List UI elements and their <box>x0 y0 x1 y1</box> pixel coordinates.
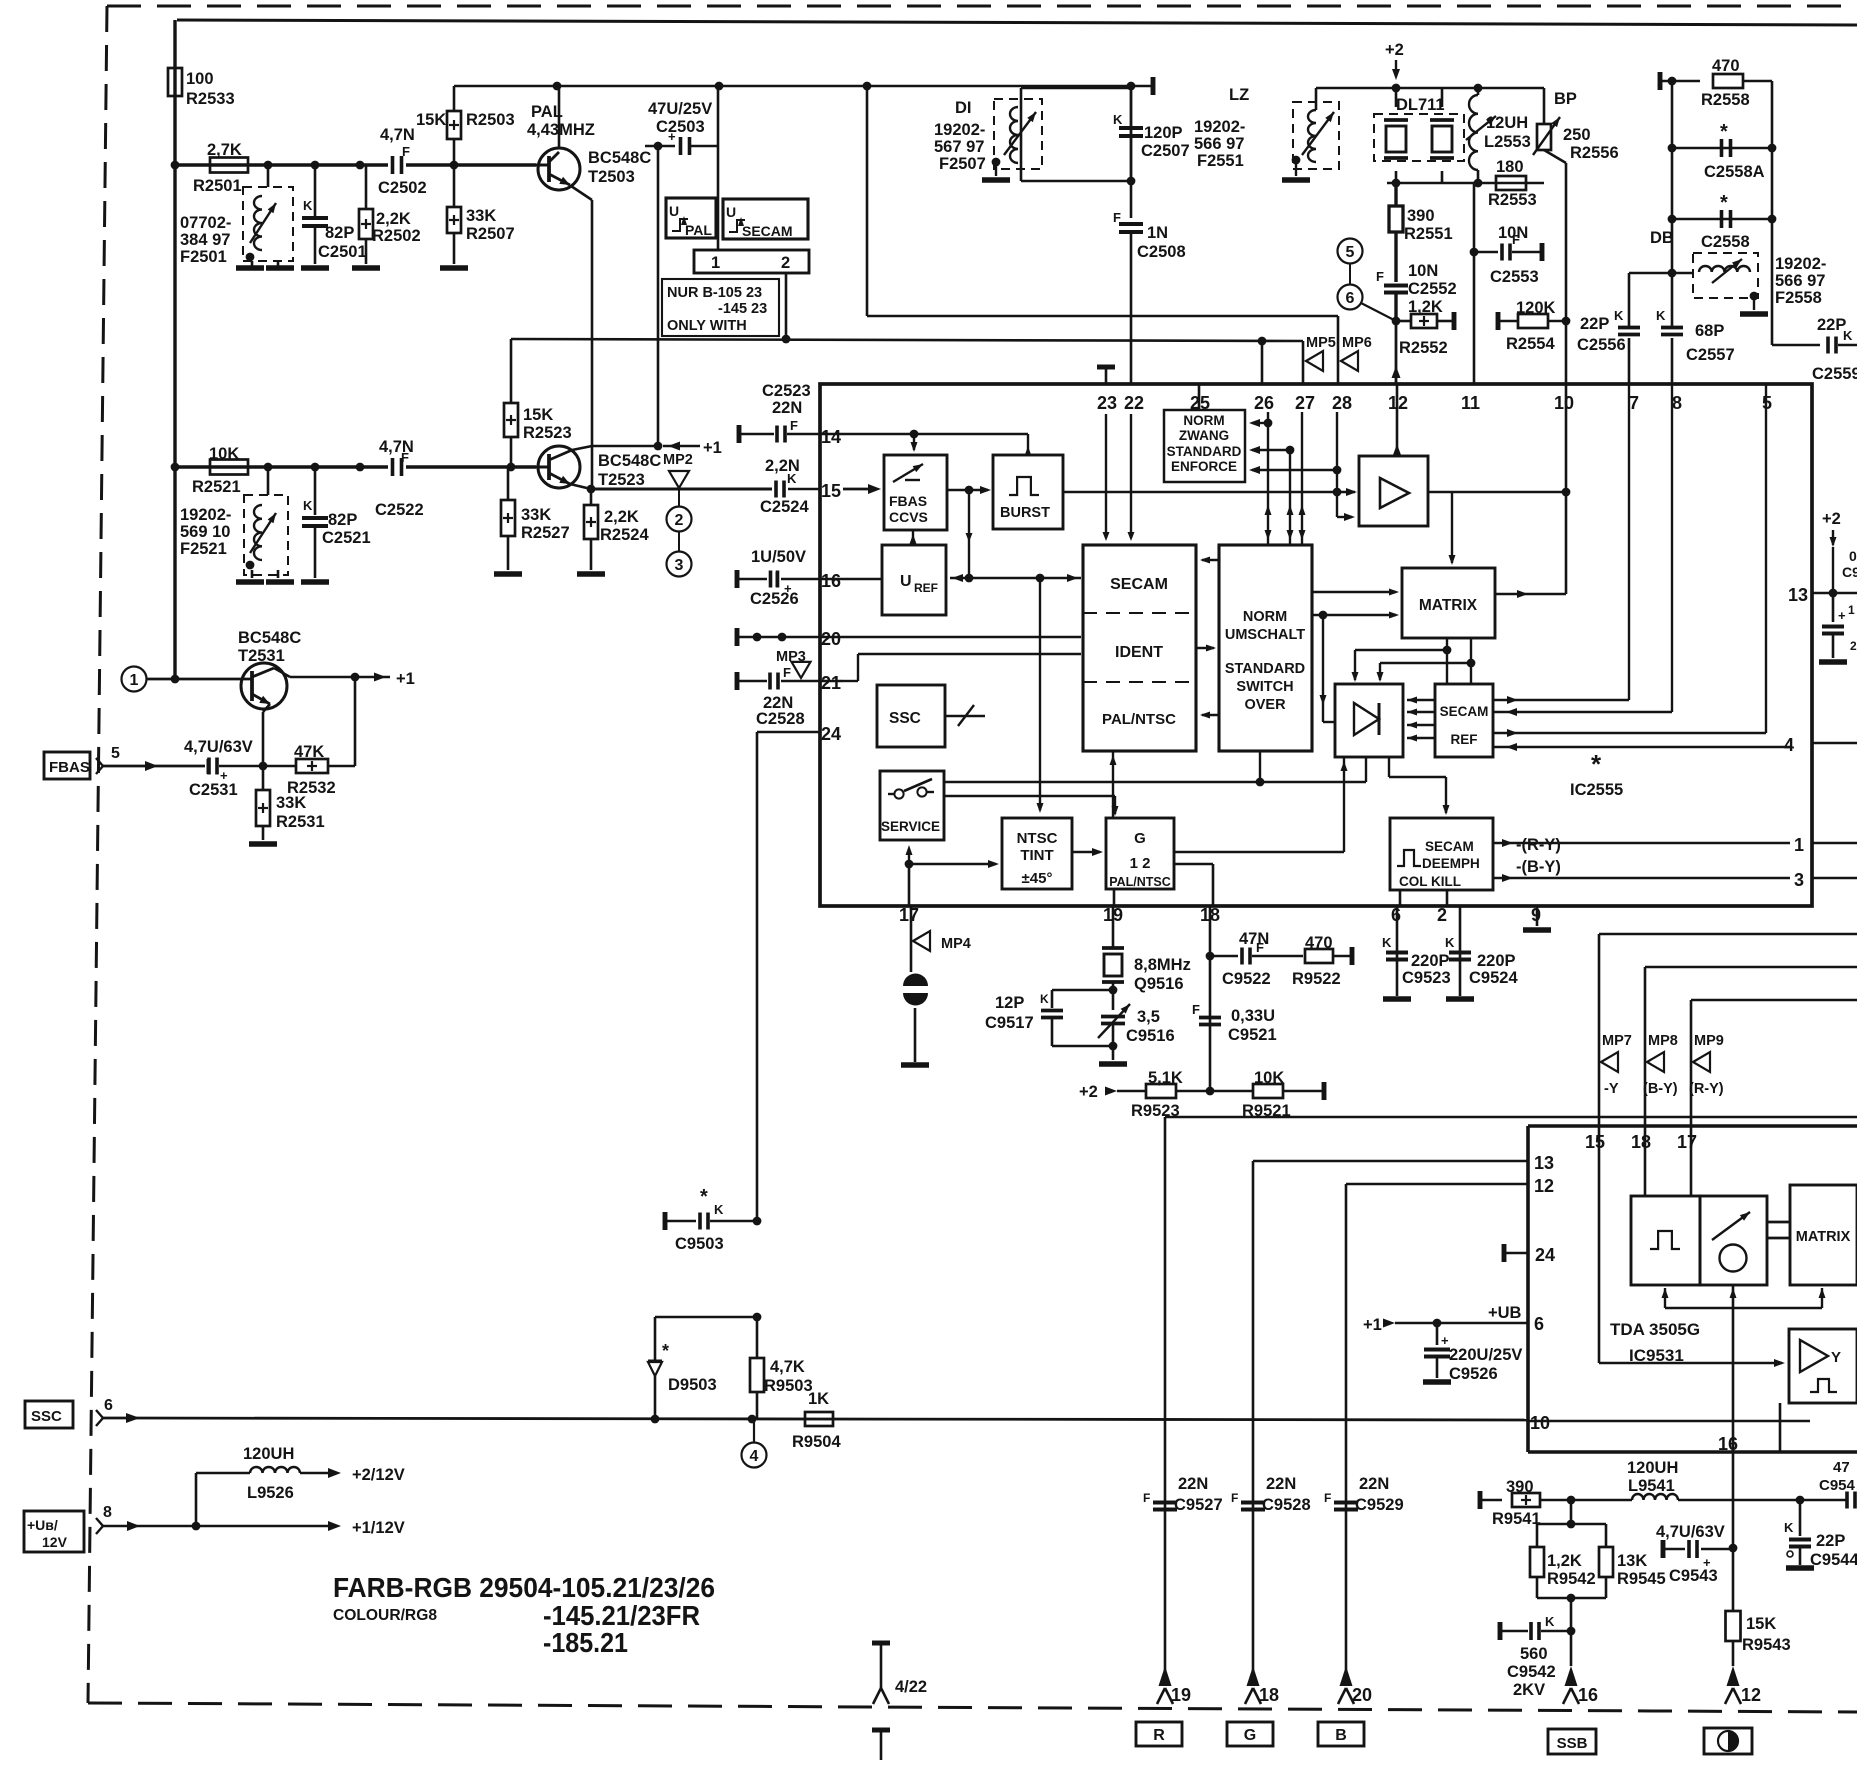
svg-text:22N: 22N <box>1266 1475 1296 1493</box>
svg-text:K: K <box>303 498 313 513</box>
svg-text:82P: 82P <box>328 511 357 529</box>
svg-text:F2551: F2551 <box>1197 152 1244 170</box>
svg-text:5: 5 <box>111 745 120 762</box>
svg-text:UMSCHALT: UMSCHALT <box>1225 627 1305 643</box>
svg-text:BURST: BURST <box>1000 505 1050 521</box>
svg-text:C9543: C9543 <box>1669 1567 1718 1585</box>
svg-text:K: K <box>1614 308 1624 323</box>
svg-text:REF: REF <box>1451 732 1478 747</box>
svg-text:13K: 13K <box>1617 1552 1647 1570</box>
svg-text:C9503: C9503 <box>675 1235 724 1253</box>
svg-text:F: F <box>783 665 791 680</box>
svg-text:SECAM: SECAM <box>1440 704 1489 719</box>
svg-text:10: 10 <box>1530 1413 1550 1433</box>
svg-text:*: * <box>700 1186 708 1208</box>
svg-text:DL711: DL711 <box>1396 96 1445 114</box>
svg-text:IC9531: IC9531 <box>1629 1346 1684 1365</box>
svg-text:BP: BP <box>1554 90 1577 108</box>
svg-text:R2503: R2503 <box>466 111 515 129</box>
svg-text:C2507: C2507 <box>1141 142 1190 160</box>
svg-text:+Uʙ/: +Uʙ/ <box>27 1517 58 1533</box>
svg-text:K: K <box>1784 1520 1794 1535</box>
svg-text:ONLY WITH: ONLY WITH <box>667 318 747 334</box>
svg-text:23: 23 <box>1097 393 1117 413</box>
svg-text:R2556: R2556 <box>1570 144 1619 162</box>
svg-text:384 97: 384 97 <box>180 231 230 249</box>
svg-text:K: K <box>1040 992 1049 1006</box>
svg-text:6: 6 <box>104 1397 113 1414</box>
svg-text:R2502: R2502 <box>372 227 421 245</box>
svg-text:SSB: SSB <box>1557 1735 1588 1752</box>
svg-text:C9526: C9526 <box>1449 1365 1498 1383</box>
svg-text:C2558: C2558 <box>1701 233 1750 251</box>
svg-text:470: 470 <box>1712 57 1740 75</box>
svg-text:20: 20 <box>821 629 841 649</box>
svg-text:10K: 10K <box>1254 1069 1284 1087</box>
svg-text:4: 4 <box>750 1448 759 1465</box>
svg-text:10N: 10N <box>1498 224 1528 242</box>
svg-text:47U/25V: 47U/25V <box>648 100 712 118</box>
svg-text:47: 47 <box>1833 1459 1850 1476</box>
svg-text:22N: 22N <box>1178 1475 1208 1493</box>
svg-text:(R-Y): (R-Y) <box>1689 1081 1724 1097</box>
svg-text:33K: 33K <box>276 794 306 812</box>
svg-text:C2531: C2531 <box>189 781 238 799</box>
svg-text:STANDARD: STANDARD <box>1167 444 1242 459</box>
svg-text:+2: +2 <box>1385 41 1404 59</box>
svg-text:33K: 33K <box>521 506 551 524</box>
svg-text:NORM: NORM <box>1243 609 1287 625</box>
svg-text:18: 18 <box>1259 1685 1279 1705</box>
svg-text:390: 390 <box>1407 207 1435 225</box>
svg-text:+: + <box>1441 1333 1449 1348</box>
svg-text:F: F <box>1113 210 1121 225</box>
svg-text:FBAS: FBAS <box>889 493 927 509</box>
svg-text:F: F <box>790 418 798 433</box>
svg-text:16: 16 <box>821 571 841 591</box>
svg-text:C2528: C2528 <box>756 710 805 728</box>
svg-text:15K: 15K <box>416 111 446 129</box>
svg-text:F: F <box>1192 1002 1200 1017</box>
svg-text:22N: 22N <box>772 399 802 417</box>
svg-text:SWITCH: SWITCH <box>1236 679 1293 695</box>
svg-text:R2501: R2501 <box>193 177 242 195</box>
svg-text:2: 2 <box>675 512 684 529</box>
svg-text:27: 27 <box>1295 393 1315 413</box>
svg-text:CCVS: CCVS <box>889 509 928 525</box>
svg-text:F: F <box>1324 1491 1331 1505</box>
svg-text:R2553: R2553 <box>1488 191 1537 209</box>
svg-text:20: 20 <box>1352 1685 1372 1705</box>
svg-text:NUR B-105 23: NUR B-105 23 <box>667 285 762 301</box>
svg-text:TDA 3505G: TDA 3505G <box>1610 1320 1700 1339</box>
svg-text:12V: 12V <box>42 1534 68 1550</box>
svg-text:13: 13 <box>1788 585 1808 605</box>
svg-text:10K: 10K <box>209 445 239 463</box>
svg-text:C9523: C9523 <box>1402 969 1451 987</box>
svg-text:K: K <box>303 198 313 213</box>
svg-text:569 10: 569 10 <box>180 523 230 541</box>
svg-text:MP4: MP4 <box>941 936 971 952</box>
svg-text:15: 15 <box>1585 1132 1605 1152</box>
svg-text:R9542: R9542 <box>1547 1570 1596 1588</box>
svg-text:16: 16 <box>1578 1685 1598 1705</box>
svg-text:(B-Y): (B-Y) <box>1643 1081 1678 1097</box>
svg-text:R9545: R9545 <box>1617 1570 1666 1588</box>
svg-text:OVER: OVER <box>1244 697 1286 713</box>
svg-text:5: 5 <box>1346 244 1355 261</box>
svg-text:ZWANG: ZWANG <box>1179 428 1229 443</box>
svg-text:-185.21: -185.21 <box>543 1627 628 1658</box>
svg-text:1N: 1N <box>1147 224 1168 242</box>
svg-text:250: 250 <box>1563 126 1591 144</box>
svg-text:*: * <box>1591 749 1602 779</box>
svg-text:R2533: R2533 <box>186 90 235 108</box>
svg-text:G: G <box>1134 830 1146 847</box>
svg-text:560: 560 <box>1520 1645 1548 1663</box>
svg-text:F: F <box>1143 1491 1150 1505</box>
svg-text:SERVICE: SERVICE <box>881 819 940 834</box>
svg-text:17: 17 <box>1677 1132 1697 1152</box>
svg-text:K: K <box>1545 1614 1555 1629</box>
svg-text:R2523: R2523 <box>523 424 572 442</box>
svg-text:SSC: SSC <box>31 1408 62 1425</box>
svg-text:R2531: R2531 <box>276 813 325 831</box>
svg-text:LZ: LZ <box>1229 86 1249 104</box>
svg-text:F: F <box>1231 1491 1238 1505</box>
svg-text:390: 390 <box>1506 1478 1534 1496</box>
svg-text:MP2: MP2 <box>663 452 693 468</box>
svg-text:47N: 47N <box>1239 930 1269 948</box>
svg-text:2: 2 <box>1437 905 1447 925</box>
svg-text:FBAS: FBAS <box>49 759 90 776</box>
svg-text:SECAM: SECAM <box>742 223 793 239</box>
svg-text:567 97: 567 97 <box>934 138 984 156</box>
svg-text:C2526: C2526 <box>750 590 799 608</box>
svg-text:120P: 120P <box>1144 124 1183 142</box>
svg-text:21: 21 <box>821 673 841 693</box>
svg-text:COL KILL: COL KILL <box>1399 874 1461 889</box>
svg-text:MP6: MP6 <box>1342 335 1372 351</box>
svg-text:*: * <box>1720 192 1728 214</box>
svg-text:R9522: R9522 <box>1292 970 1341 988</box>
svg-text:1,2K: 1,2K <box>1547 1552 1582 1570</box>
svg-text:R2524: R2524 <box>600 526 649 544</box>
svg-text:8,8MHz: 8,8MHz <box>1134 956 1191 974</box>
svg-text:120UH: 120UH <box>243 1445 294 1463</box>
svg-text:2: 2 <box>781 254 790 272</box>
svg-text:C2503: C2503 <box>656 118 705 136</box>
svg-text:6: 6 <box>1534 1314 1544 1334</box>
svg-text:5,1K: 5,1K <box>1148 1069 1183 1087</box>
svg-text:NORM: NORM <box>1183 413 1224 428</box>
svg-text:MP5: MP5 <box>1306 335 1336 351</box>
svg-text:22P: 22P <box>1816 1532 1845 1550</box>
svg-text:26: 26 <box>1254 393 1274 413</box>
svg-text:Y: Y <box>1831 1349 1841 1366</box>
svg-text:R2521: R2521 <box>192 478 241 496</box>
svg-text:REF: REF <box>914 581 938 595</box>
svg-text:28: 28 <box>1332 393 1352 413</box>
svg-text:1: 1 <box>1794 835 1804 855</box>
svg-text:DB: DB <box>1650 229 1674 247</box>
svg-text:U: U <box>900 573 912 590</box>
svg-text:22P: 22P <box>1580 315 1609 333</box>
svg-text:3,5: 3,5 <box>1137 1008 1160 1026</box>
svg-text:0,: 0, <box>1849 548 1857 564</box>
svg-text:19: 19 <box>1171 1685 1191 1705</box>
svg-text:6: 6 <box>1346 290 1355 307</box>
svg-text:4,43MHZ: 4,43MHZ <box>527 121 595 139</box>
svg-text:C9527: C9527 <box>1174 1496 1223 1514</box>
svg-text:566 97: 566 97 <box>1775 272 1825 290</box>
svg-text:13: 13 <box>1534 1153 1554 1173</box>
svg-text:C9529: C9529 <box>1355 1496 1404 1514</box>
svg-text:K: K <box>1843 328 1853 343</box>
svg-text:15K: 15K <box>523 406 553 424</box>
svg-text:C2522: C2522 <box>375 501 424 519</box>
svg-text:C2502: C2502 <box>378 179 427 197</box>
svg-text:22N: 22N <box>1359 1475 1389 1493</box>
svg-text:R9504: R9504 <box>792 1433 841 1451</box>
svg-text:C9524: C9524 <box>1469 969 1518 987</box>
svg-text:NTSC: NTSC <box>1017 830 1058 847</box>
svg-text:18: 18 <box>1631 1132 1651 1152</box>
svg-text:4,7U/63V: 4,7U/63V <box>1656 1523 1725 1541</box>
svg-text:180: 180 <box>1496 158 1524 176</box>
svg-text:C2556: C2556 <box>1577 336 1626 354</box>
svg-text:7: 7 <box>1629 393 1639 413</box>
svg-text:4,7K: 4,7K <box>770 1358 805 1376</box>
svg-text:C9517: C9517 <box>985 1014 1034 1032</box>
svg-text:F2507: F2507 <box>939 155 986 173</box>
svg-text:IC2555: IC2555 <box>1570 781 1623 799</box>
svg-text:R9543: R9543 <box>1742 1636 1791 1654</box>
svg-text:R2551: R2551 <box>1404 225 1453 243</box>
svg-text:C2559: C2559 <box>1812 365 1857 383</box>
svg-text:12UH: 12UH <box>1486 114 1528 132</box>
svg-text:2,2K: 2,2K <box>604 508 639 526</box>
svg-text:C2523: C2523 <box>762 382 811 400</box>
svg-text:C9516: C9516 <box>1126 1027 1175 1045</box>
svg-text:1U/50V: 1U/50V <box>751 548 806 566</box>
svg-text:+UB: +UB <box>1488 1304 1522 1322</box>
svg-text:220P: 220P <box>1411 952 1450 970</box>
svg-text:12: 12 <box>1741 1685 1761 1705</box>
svg-text:C2558A: C2558A <box>1704 163 1765 181</box>
svg-text:82P: 82P <box>325 224 354 242</box>
svg-text:+1: +1 <box>1363 1316 1382 1334</box>
svg-text:470: 470 <box>1305 934 1333 952</box>
svg-text:T2503: T2503 <box>588 168 635 186</box>
svg-text:4,7N: 4,7N <box>380 126 415 144</box>
svg-text:MATRIX: MATRIX <box>1419 597 1478 614</box>
svg-text:C2553: C2553 <box>1490 268 1539 286</box>
svg-text:PAL: PAL <box>685 222 712 238</box>
svg-text:C9522: C9522 <box>1222 970 1271 988</box>
svg-text:+: + <box>1838 608 1846 623</box>
svg-text:F: F <box>401 450 409 465</box>
svg-text:±45°: ±45° <box>1022 870 1053 887</box>
svg-text:12P: 12P <box>995 994 1024 1012</box>
svg-text:4,7U/63V: 4,7U/63V <box>184 738 253 756</box>
svg-text:24: 24 <box>1535 1245 1555 1265</box>
svg-text:C2552: C2552 <box>1408 280 1457 298</box>
svg-text:C9521: C9521 <box>1228 1026 1277 1044</box>
svg-text:R: R <box>1153 1727 1165 1744</box>
svg-text:L2553: L2553 <box>1484 133 1531 151</box>
svg-text:K: K <box>1113 112 1123 127</box>
svg-text:19202-: 19202- <box>1194 118 1245 136</box>
svg-text:DI: DI <box>955 99 972 117</box>
svg-text:C9544: C9544 <box>1810 1551 1857 1569</box>
svg-text:07702-: 07702- <box>180 214 231 232</box>
svg-text:68P: 68P <box>1695 322 1724 340</box>
svg-text:TINT: TINT <box>1020 847 1053 864</box>
svg-text:*: * <box>662 1341 669 1361</box>
svg-text:-(R-Y): -(R-Y) <box>1516 836 1561 854</box>
svg-text:2,2K: 2,2K <box>376 210 411 228</box>
svg-text:SECAM: SECAM <box>1425 839 1474 854</box>
svg-text:0,33U: 0,33U <box>1231 1007 1275 1025</box>
svg-text:-145 23: -145 23 <box>718 301 767 317</box>
svg-text:U: U <box>726 204 736 220</box>
svg-text:ENFORCE: ENFORCE <box>1171 459 1237 474</box>
svg-text:R2552: R2552 <box>1399 339 1448 357</box>
svg-text:33K: 33K <box>466 207 496 225</box>
svg-text:MP7: MP7 <box>1602 1033 1632 1049</box>
svg-text:10: 10 <box>1554 393 1574 413</box>
svg-text:3: 3 <box>675 557 684 574</box>
svg-text:R9503: R9503 <box>764 1377 813 1395</box>
svg-text:47K: 47K <box>294 743 324 761</box>
svg-text:-(B-Y): -(B-Y) <box>1516 858 1561 876</box>
svg-text:+2/12V: +2/12V <box>352 1466 405 1484</box>
svg-text:R2507: R2507 <box>466 225 515 243</box>
svg-text:2,7K: 2,7K <box>207 141 242 159</box>
svg-text:8: 8 <box>1672 393 1682 413</box>
svg-text:C9542: C9542 <box>1507 1663 1556 1681</box>
svg-text:17: 17 <box>899 905 919 925</box>
svg-text:120K: 120K <box>1516 299 1556 317</box>
svg-text:C954: C954 <box>1819 1477 1856 1494</box>
svg-text:C2557: C2557 <box>1686 346 1735 364</box>
svg-text:4: 4 <box>1784 735 1794 755</box>
svg-text:1: 1 <box>130 672 139 689</box>
svg-text:MATRIX: MATRIX <box>1796 1229 1851 1245</box>
svg-text:4/22: 4/22 <box>895 1678 927 1696</box>
svg-text:G: G <box>1244 1727 1256 1744</box>
svg-text:19202-: 19202- <box>180 506 231 524</box>
svg-text:F: F <box>1376 269 1384 284</box>
svg-text:-Y: -Y <box>1604 1081 1619 1097</box>
svg-text:L9541: L9541 <box>1628 1477 1675 1495</box>
svg-text:19202-: 19202- <box>1775 255 1826 273</box>
svg-text:C2508: C2508 <box>1137 243 1186 261</box>
svg-text:R9541: R9541 <box>1492 1510 1541 1528</box>
svg-text:11: 11 <box>1461 393 1480 413</box>
svg-text:C2501: C2501 <box>318 243 367 261</box>
svg-text:F2521: F2521 <box>180 540 227 558</box>
svg-text:C9: C9 <box>1842 564 1857 580</box>
svg-text:R2527: R2527 <box>521 524 570 542</box>
svg-text:L9526: L9526 <box>247 1484 294 1502</box>
svg-text:BC548C: BC548C <box>598 452 661 470</box>
svg-text:+2: +2 <box>1079 1083 1098 1101</box>
svg-text:B: B <box>1335 1727 1347 1744</box>
svg-text:U: U <box>669 203 679 219</box>
svg-text:2: 2 <box>1850 639 1857 653</box>
svg-text:COLOUR/RG8: COLOUR/RG8 <box>333 1607 437 1624</box>
svg-text:MP9: MP9 <box>1694 1033 1724 1049</box>
svg-text:566 97: 566 97 <box>1194 135 1244 153</box>
svg-text:22: 22 <box>1124 393 1144 413</box>
svg-text:+1/12V: +1/12V <box>352 1519 405 1537</box>
svg-text:15: 15 <box>821 481 841 501</box>
svg-text:PAL: PAL <box>531 103 563 121</box>
svg-text:220P: 220P <box>1477 952 1516 970</box>
svg-text:*: * <box>1720 121 1728 143</box>
svg-text:+1: +1 <box>396 670 415 688</box>
svg-text:+2: +2 <box>1822 510 1841 528</box>
svg-text:1: 1 <box>711 254 720 272</box>
svg-text:C2524: C2524 <box>760 498 809 516</box>
svg-text:16: 16 <box>1718 1434 1738 1454</box>
svg-text:K: K <box>1656 308 1666 323</box>
svg-text:C9528: C9528 <box>1262 1496 1311 1514</box>
svg-text:BC548C: BC548C <box>588 149 651 167</box>
svg-text:8: 8 <box>103 1504 112 1521</box>
svg-text:F: F <box>402 144 410 159</box>
svg-text:R2554: R2554 <box>1506 335 1555 353</box>
svg-text:100: 100 <box>186 70 214 88</box>
svg-text:F2558: F2558 <box>1775 289 1822 307</box>
svg-text:12: 12 <box>1534 1176 1554 1196</box>
svg-text:19202-: 19202- <box>934 121 985 139</box>
svg-text:120UH: 120UH <box>1627 1459 1678 1477</box>
svg-text:2KV: 2KV <box>1513 1681 1545 1699</box>
svg-text:PAL/NTSC: PAL/NTSC <box>1109 875 1171 889</box>
svg-text:MP8: MP8 <box>1648 1033 1678 1049</box>
svg-text:1: 1 <box>1848 603 1855 617</box>
svg-text:+1: +1 <box>703 439 722 457</box>
svg-text:STANDARD: STANDARD <box>1225 661 1305 677</box>
svg-text:BC548C: BC548C <box>238 629 301 647</box>
svg-text:SECAM: SECAM <box>1110 576 1168 593</box>
svg-text:T2523: T2523 <box>598 471 645 489</box>
svg-text:14: 14 <box>821 427 841 447</box>
svg-text:FARB-RGB 29504-105.21/23/26: FARB-RGB 29504-105.21/23/26 <box>333 1572 715 1603</box>
svg-text:DEEMPH: DEEMPH <box>1422 856 1480 871</box>
svg-text:IDENT: IDENT <box>1115 644 1163 661</box>
svg-text:PAL/NTSC: PAL/NTSC <box>1102 711 1176 728</box>
svg-text:D9503: D9503 <box>668 1376 717 1394</box>
svg-text:F: F <box>1256 940 1264 955</box>
svg-text:R2558: R2558 <box>1701 91 1750 109</box>
svg-text:K: K <box>787 471 797 486</box>
svg-text:15K: 15K <box>1746 1615 1776 1633</box>
svg-text:22P: 22P <box>1817 316 1846 334</box>
svg-text:10N: 10N <box>1408 262 1438 280</box>
svg-text:C2521: C2521 <box>322 529 371 547</box>
svg-text:220U/25V: 220U/25V <box>1449 1346 1522 1364</box>
svg-text:1 2: 1 2 <box>1130 855 1151 872</box>
svg-text:T2531: T2531 <box>238 647 285 665</box>
svg-text:K: K <box>714 1202 724 1217</box>
svg-text:K: K <box>1445 935 1455 950</box>
svg-text:24: 24 <box>821 724 841 744</box>
svg-text:3: 3 <box>1794 870 1804 890</box>
